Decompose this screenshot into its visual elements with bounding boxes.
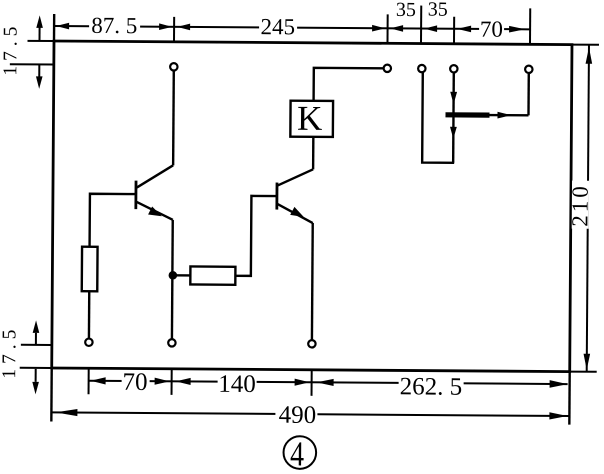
wire K top bbox=[314, 68, 383, 101]
svg-text:210: 210 bbox=[567, 183, 592, 227]
wire R1 to B1 bbox=[88, 291, 91, 338]
wire contact right bbox=[527, 73, 530, 115]
wire contact middle bbox=[452, 73, 455, 163]
terminal B3 bbox=[308, 340, 315, 347]
arrow 210 bottom bbox=[583, 354, 590, 370]
bottom dimension line row2 (490) bbox=[51, 412, 569, 416]
svg-text:35: 35 bbox=[396, 0, 416, 21]
extension tick col 314 bbox=[311, 370, 313, 396]
arrow 87.5 left bbox=[56, 23, 69, 30]
relay coil K box bbox=[290, 101, 333, 137]
wire R2 to Q2 base bbox=[235, 196, 276, 276]
svg-text:17.5: 17.5 bbox=[0, 22, 21, 76]
transistor Q1 emitter arrow bbox=[148, 206, 162, 216]
svg-text:70: 70 bbox=[480, 17, 503, 42]
svg-text:70: 70 bbox=[122, 369, 147, 396]
wire Q1 emitter down bbox=[171, 220, 174, 339]
right dimension line 210 bbox=[587, 45, 589, 372]
resistor R2 bbox=[190, 266, 235, 284]
left border top extension bbox=[53, 14, 56, 41]
board outline bbox=[52, 41, 572, 372]
dim 17.5 bottom-left tick bbox=[21, 344, 52, 346]
label 490 bbox=[275, 402, 317, 429]
contact thick bar bbox=[445, 112, 489, 118]
wire contact left bbox=[422, 73, 455, 163]
terminal B2 bbox=[168, 339, 175, 346]
dim 17.5 top-left upper arrow bbox=[36, 15, 43, 41]
arrow 210 top bbox=[586, 47, 593, 64]
transistor Q2 emitter bbox=[277, 204, 313, 223]
junction node dot bbox=[169, 271, 178, 280]
arrow 490 right bbox=[549, 412, 567, 419]
terminal T4 bbox=[450, 65, 457, 72]
svg-text:245: 245 bbox=[260, 14, 295, 39]
label 70 top bbox=[479, 17, 504, 42]
contact middle lower arrow bbox=[450, 127, 457, 139]
dim 17.5 top-left lower arrow bbox=[36, 64, 43, 89]
arrow 70bot left bbox=[91, 377, 106, 384]
extension tick col 387 bbox=[386, 14, 388, 43]
transistor Q1 base bar bbox=[134, 181, 137, 209]
top border left extension bbox=[28, 40, 54, 42]
transistor Q1 emitter bbox=[137, 202, 173, 220]
arrow 245 left bbox=[177, 24, 190, 31]
label 210 bbox=[567, 181, 592, 229]
arrow 262.5 right bbox=[550, 380, 568, 388]
wire col1 top (T1 to Q1 collector) bbox=[172, 71, 175, 165]
svg-text:87. 5: 87. 5 bbox=[91, 13, 137, 38]
svg-text:4: 4 bbox=[290, 434, 304, 473]
arrow 262.5 left bbox=[317, 379, 334, 386]
label 87.5 bbox=[89, 13, 140, 38]
bottom dimension line row1 bbox=[89, 381, 568, 384]
top border right extension bbox=[572, 44, 599, 46]
arrow 70bot right bbox=[155, 378, 170, 385]
svg-text:35: 35 bbox=[428, 0, 448, 21]
top dimension line bbox=[54, 26, 530, 29]
transistor Q1 collector bbox=[137, 165, 173, 188]
label 140 bbox=[218, 371, 257, 398]
extension tick col 530 bbox=[529, 8, 531, 44]
transistor Q2 emitter arrow bbox=[290, 207, 304, 217]
bottom border right extension bbox=[570, 371, 597, 373]
extension tick col 455 bbox=[453, 17, 455, 44]
left border bottom extension bbox=[50, 368, 53, 421]
label 245 bbox=[259, 14, 297, 39]
dim 17.5 top-left tick bbox=[10, 63, 54, 65]
extension tick col 91 bbox=[88, 368, 90, 394]
bottom border left extension bbox=[20, 367, 52, 369]
arrow 245 right bbox=[372, 25, 385, 32]
dim 17.5 bottom-left lower arrow bbox=[32, 369, 39, 395]
terminal B1 bbox=[85, 339, 92, 346]
terminal T2 bbox=[384, 65, 391, 72]
resistor R1 bbox=[82, 247, 98, 292]
arrow 490 left bbox=[55, 409, 77, 416]
arrow 140 left bbox=[176, 378, 191, 385]
wire Q1 base bbox=[90, 194, 136, 247]
arrow 35b bbox=[424, 25, 437, 32]
arrow 140 right bbox=[295, 379, 310, 386]
arrow 70top right bbox=[509, 26, 525, 33]
extension tick col 174 bbox=[171, 369, 173, 395]
svg-text:K: K bbox=[297, 99, 323, 138]
svg-text:490: 490 bbox=[279, 402, 317, 429]
wire dot to R2 bbox=[173, 274, 190, 277]
terminal T3 bbox=[418, 65, 425, 72]
transistor Q2 base bar bbox=[275, 183, 278, 210]
terminal T1 bbox=[170, 63, 177, 70]
svg-text:17.5: 17.5 bbox=[0, 325, 21, 379]
dim 17.5 bottom-left upper arrow bbox=[33, 320, 40, 345]
transistor Q2 collector bbox=[277, 169, 313, 186]
extension tick col 422 bbox=[420, 6, 422, 44]
label 262.5 bbox=[398, 373, 463, 400]
right border bottom extension bbox=[568, 372, 571, 425]
figure number circle 4 bbox=[283, 434, 316, 473]
terminal T5 bbox=[525, 66, 532, 73]
wire Q2 emitter down bbox=[311, 223, 314, 340]
contact middle upper arrow bbox=[450, 92, 457, 105]
wire bar to right bbox=[489, 114, 528, 117]
arrow 87.5 right bbox=[159, 23, 172, 30]
arrow 35a bbox=[390, 25, 403, 32]
contact bar arrow bbox=[497, 112, 511, 119]
svg-text:140: 140 bbox=[218, 371, 256, 398]
svg-text:262. 5: 262. 5 bbox=[400, 373, 463, 400]
wire Q2 collector to K bbox=[312, 137, 315, 169]
label 70 bottom bbox=[122, 369, 150, 396]
extension tick col1 bbox=[173, 17, 175, 42]
arrow 70top left bbox=[457, 26, 471, 33]
